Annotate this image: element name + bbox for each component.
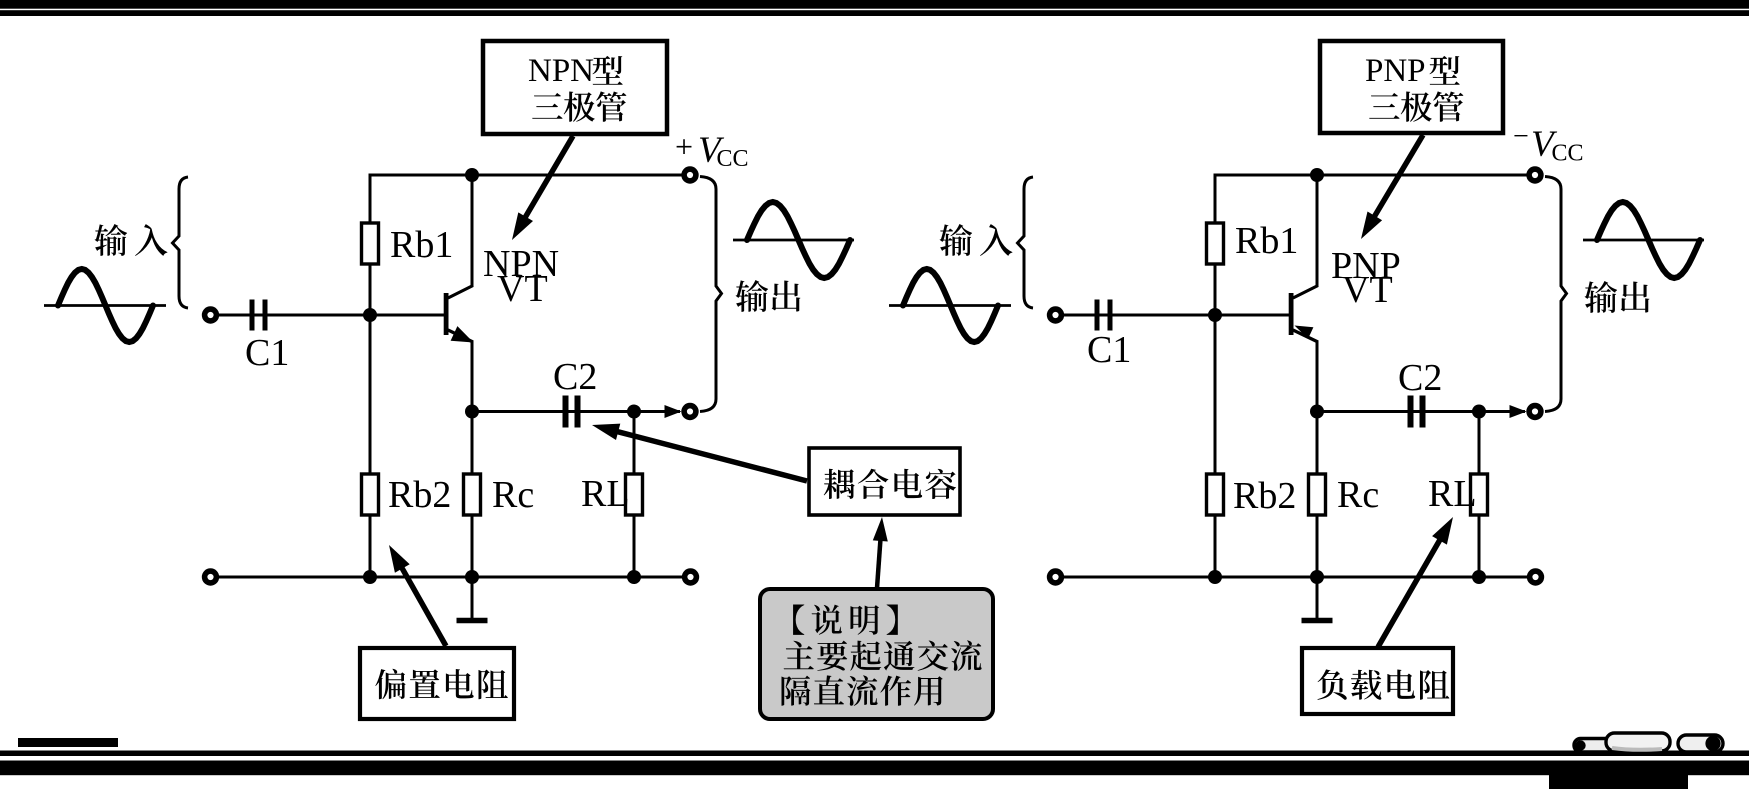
svg-text:C2: C2 xyxy=(1398,357,1442,399)
svg-text:VT: VT xyxy=(497,268,548,310)
svg-text:CC: CC xyxy=(717,146,749,172)
svg-text:Rb2: Rb2 xyxy=(1233,475,1296,517)
svg-text:RL: RL xyxy=(581,473,630,515)
svg-text:C1: C1 xyxy=(1087,329,1131,371)
svg-text:C1: C1 xyxy=(245,332,289,374)
svg-text:C2: C2 xyxy=(553,356,597,398)
svg-text:NPN: NPN xyxy=(528,53,594,89)
svg-text:PNP: PNP xyxy=(1365,53,1426,89)
svg-text:Rb1: Rb1 xyxy=(390,224,453,266)
svg-text:Rc: Rc xyxy=(1337,474,1379,516)
svg-text:RL: RL xyxy=(1428,473,1477,515)
svg-text:Rb2: Rb2 xyxy=(388,474,451,516)
svg-text:VT: VT xyxy=(1342,269,1393,311)
svg-text:+: + xyxy=(675,129,693,165)
svg-text:Rc: Rc xyxy=(492,474,534,516)
svg-text:−: − xyxy=(1513,121,1529,152)
svg-text:CC: CC xyxy=(1552,141,1584,167)
svg-text:Rb1: Rb1 xyxy=(1235,220,1298,262)
